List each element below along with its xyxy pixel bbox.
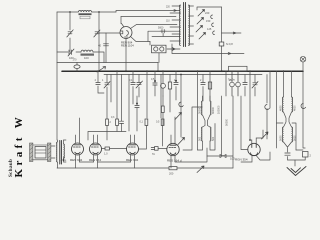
wire bus lower y74.5: [104, 74, 262, 76]
svg-text:REN 904: REN 904: [126, 158, 139, 162]
capacitor C11: [135, 106, 139, 108]
svg-text:1,0: 1,0: [104, 152, 108, 156]
hook connector left: [265, 105, 270, 110]
svg-text:170: 170: [73, 59, 78, 62]
wire vertical C2: [98, 12, 100, 71]
choke bottom right winding: [292, 127, 293, 142]
wire x123 low: [88, 123, 126, 140]
svg-text:100: 100: [84, 56, 89, 60]
wire interstage tap: [183, 107, 203, 150]
dual capacitor block C5: [150, 42, 175, 53]
capacitor right: [303, 152, 309, 158]
transformer T1 core: [184, 3, 186, 47]
drops group1: [98, 71, 122, 121]
switch arrow bottom: [197, 166, 204, 173]
drops group2: [129, 71, 161, 131]
drops group4: [245, 71, 305, 148]
junction dot V6 top: [249, 139, 251, 141]
choke mid links: [284, 112, 292, 127]
resistor x170: [168, 82, 171, 89]
wire x222 bottom: [221, 96, 223, 156]
choke top left winding: [282, 97, 283, 112]
pickup jack: [151, 147, 158, 151]
tube V2: [72, 143, 84, 155]
wire interstage bottom: [198, 124, 216, 151]
resistor x163: [161, 106, 164, 113]
resistor R4: [145, 119, 148, 126]
resistor bottom: [169, 167, 177, 170]
drops group3: [163, 71, 226, 150]
svg-text:30000: 30000: [198, 106, 201, 114]
transformer T1 right winding: [189, 5, 190, 46]
wire vertical C1: [69, 12, 71, 52]
wire selector top: [197, 7, 222, 10]
svg-text:5000: 5000: [294, 135, 297, 141]
wire top cap V1: [121, 17, 124, 28]
svg-text:50000: 50000: [226, 118, 229, 126]
svg-text:5000: 5000: [279, 135, 282, 141]
lamp stem: [302, 62, 304, 71]
wire top V5: [171, 117, 175, 144]
wire choke bottom: [284, 142, 296, 166]
tube V5: [167, 143, 179, 155]
wire speaker links: [51, 140, 66, 168]
svg-text:30000: 30000: [212, 106, 215, 114]
resistor R2: [106, 119, 109, 126]
interstage transformer top right winding: [210, 101, 211, 115]
tube V4: [127, 143, 139, 155]
svg-text:125: 125: [207, 27, 212, 31]
capacitor x256: [252, 82, 258, 89]
resistor R5: [161, 119, 164, 126]
junction dot x155: [154, 80, 156, 82]
junction dot speaker: [63, 159, 65, 161]
wire to cap right: [295, 150, 305, 160]
tube V1: [120, 27, 132, 39]
wire vertical x106 trimmer: [105, 33, 107, 63]
wire V5 legs: [171, 156, 207, 169]
capacitor x163: [161, 83, 166, 88]
capacitor x155: [153, 83, 157, 85]
wire antenna top: [57, 11, 116, 13]
svg-text:40: 40: [98, 44, 102, 48]
junction dot C11: [136, 103, 138, 105]
svg-text:+: +: [65, 159, 67, 163]
svg-text:RES 164: RES 164: [89, 158, 101, 162]
wire jack to V5: [158, 148, 167, 150]
junction dot x70: [69, 11, 71, 13]
svg-text:REN 904: REN 904: [70, 158, 83, 162]
svg-text:4000: 4000: [294, 105, 297, 111]
wire x159 down: [158, 53, 160, 63]
speaker magnet left: [30, 143, 33, 162]
switch on bus: [97, 67, 106, 73]
capacitor near ground: [285, 153, 290, 155]
wire x207 down: [207, 96, 233, 168]
switch arrow mid: [178, 138, 185, 145]
svg-text:100000: 100000: [218, 105, 221, 114]
coil L1: [79, 11, 92, 13]
capacitor x106: [104, 82, 110, 89]
resistor grid V4: [105, 147, 110, 150]
wire x272 low: [266, 109, 268, 140]
wire mains lower lead: [172, 44, 244, 55]
svg-text:Si 0,8: Si 0,8: [226, 42, 233, 46]
resistor x210b: [208, 82, 211, 89]
wire choke top: [284, 71, 292, 97]
junction dot x99: [98, 11, 100, 13]
core L1: [79, 13, 92, 15]
choke bottom left winding: [282, 127, 283, 142]
taps T1 left: [170, 6, 181, 41]
wire legs V3: [94, 155, 98, 169]
hook connector right: [301, 104, 306, 109]
svg-text:TA: TA: [152, 153, 155, 156]
wire second to transformer: [121, 16, 176, 18]
interstage bottom right winding: [210, 127, 211, 141]
wire V6 legs: [241, 152, 270, 162]
tube V3: [90, 143, 102, 155]
wire x147 low: [139, 126, 163, 150]
svg-text:500: 500: [198, 136, 201, 141]
svg-text:Tw Tw: Tw Tw: [228, 79, 235, 82]
coil L2: [81, 50, 93, 52]
svg-text:+: +: [59, 159, 61, 163]
svg-text:RGN 354: RGN 354: [235, 158, 248, 162]
wire legs V2: [76, 155, 80, 169]
svg-text:220: 220: [205, 11, 210, 15]
ground: [287, 167, 306, 176]
switch arrow V6: [262, 132, 269, 139]
wire cathode V1: [125, 39, 127, 72]
capacitor C10: [119, 121, 123, 123]
wire mains vertical: [221, 7, 223, 71]
wire grid V1: [99, 32, 120, 34]
taps T1 right: [189, 6, 194, 44]
capacitor x176: [174, 83, 178, 85]
wire x163 mid: [162, 96, 164, 125]
speaker coil box: [35, 147, 46, 159]
wire left long vertical: [56, 12, 58, 140]
svg-text:REN 1104: REN 1104: [121, 44, 134, 48]
wire above V4: [131, 135, 135, 143]
wire mains upper lead: [222, 32, 242, 34]
wire antenna to transformer: [116, 10, 180, 12]
capacitor x133: [131, 83, 135, 85]
label box L1: [80, 16, 90, 19]
transformer T1 left winding: [179, 5, 180, 46]
junction dot x176: [175, 80, 177, 82]
lamp dial: [300, 56, 306, 62]
core L2: [81, 54, 95, 56]
bus chassis y71: [62, 70, 303, 72]
capacitor C1 variable: [67, 30, 73, 37]
wire above V3: [94, 135, 98, 143]
wire interstage top: [203, 96, 211, 101]
speaker coil lines: [33, 145, 47, 160]
wire bottom y168: [57, 167, 233, 169]
wire to transformer mid: [148, 31, 180, 49]
capacitor C2 variable: [94, 30, 100, 37]
fuse bowtie: [220, 155, 226, 158]
wire legs V4: [131, 155, 135, 169]
tube V6 rectifier: [248, 143, 260, 155]
interstage transformer top left winding: [202, 101, 203, 115]
wire x137: [136, 96, 138, 131]
selector contacts: [211, 15, 215, 35]
fuse Si: [219, 42, 224, 46]
switch arrow x178: [175, 113, 182, 120]
capacitor mains: [160, 30, 166, 33]
potentiometer x139: [136, 81, 143, 88]
choke frame wire: [277, 123, 297, 150]
svg-text:150: 150: [206, 19, 211, 23]
output transformer core: [60, 141, 62, 165]
capacitor C4 trimmer: [104, 44, 109, 46]
capacitor C3 trimmer arrow: [68, 49, 74, 56]
wire heater y162: [80, 161, 131, 163]
wire anode V1: [131, 25, 178, 29]
interstage mid links: [203, 115, 211, 127]
wire above V2: [76, 118, 80, 143]
wire V6 left: [241, 96, 248, 150]
resistor R3: [116, 119, 119, 126]
oval meter: [74, 65, 80, 69]
output transformer winding: [57, 142, 58, 162]
svg-text:200: 200: [169, 172, 174, 176]
wire oval verticals: [76, 63, 78, 72]
speaker magnet right: [48, 143, 51, 162]
capacitor x203: [201, 83, 205, 85]
interstage bottom left winding: [202, 127, 203, 141]
choke top right winding: [292, 97, 293, 112]
capacitor x98: [96, 83, 100, 85]
wire bus drop x158: [157, 63, 159, 72]
svg-text:Kraft W: Kraft W: [13, 114, 25, 178]
wire V3 to V4: [102, 148, 127, 150]
svg-text:4000: 4000: [279, 105, 282, 111]
svg-text:5000: 5000: [158, 27, 164, 30]
hook connector x181: [179, 102, 183, 107]
wire V1 lower right: [131, 37, 151, 42]
wire band y52: [57, 52, 104, 63]
capacitor x250: [243, 83, 247, 85]
selector arrows: [196, 10, 206, 40]
junction dots bus: [97, 70, 284, 75]
electrolytic capacitors: [230, 71, 241, 96]
output transformer secondary: [63, 144, 66, 158]
wire bus upper y62.5: [57, 62, 158, 64]
electrolytic block frame: [229, 66, 248, 71]
wire V6 plates: [250, 130, 263, 144]
